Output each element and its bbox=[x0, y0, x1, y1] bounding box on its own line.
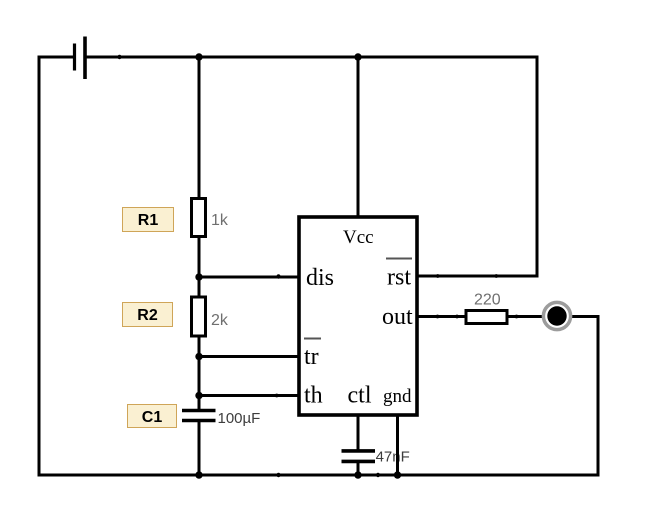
resistor R1 bbox=[192, 199, 206, 237]
svg-text:47nF: 47nF bbox=[376, 449, 410, 466]
wire top-left to battery bbox=[39, 56, 72, 59]
node junction C2 bottom bbox=[354, 471, 361, 478]
node junction top Vcc bbox=[354, 53, 361, 60]
wire C1 to bottom rail bbox=[198, 421, 201, 475]
overline tr bbox=[304, 338, 321, 340]
svg-text:rst: rst bbox=[387, 265, 411, 291]
battery B1 bbox=[75, 37, 86, 80]
wire tr pin bbox=[199, 355, 299, 358]
capacitor C2 47nF plates bbox=[342, 451, 376, 462]
wire right rail bottom bbox=[597, 317, 600, 476]
svg-text:ctl: ctl bbox=[348, 383, 372, 409]
node nub out wire a bbox=[436, 315, 440, 319]
wire right rail down to rst bbox=[536, 57, 539, 276]
wire rst to IC bbox=[417, 275, 537, 278]
wire Vcc pin bbox=[357, 57, 360, 217]
node nub out wire b bbox=[455, 315, 459, 319]
wire left rail bbox=[38, 57, 41, 475]
label box C1 bbox=[127, 404, 177, 428]
node junction tr bbox=[195, 353, 202, 360]
label box R2 bbox=[122, 302, 173, 327]
wire ctl pin to C2 bbox=[357, 415, 360, 449]
node junction gnd bottom bbox=[394, 471, 401, 478]
wire R2 to th junction bbox=[198, 337, 201, 410]
wire branch x=199 top bbox=[198, 57, 201, 198]
IC U1 555 timer bbox=[299, 217, 417, 415]
svg-text:out: out bbox=[382, 304, 413, 330]
node junction dis bbox=[195, 273, 202, 280]
svg-text:220: 220 bbox=[474, 292, 501, 309]
wire C2 to bottom rail bbox=[357, 463, 360, 475]
svg-text:2k: 2k bbox=[211, 312, 229, 329]
node junction th bbox=[195, 392, 202, 399]
svg-text:tr: tr bbox=[304, 344, 319, 370]
resistor R2 bbox=[192, 297, 206, 336]
node junction C1 bottom bbox=[195, 471, 202, 478]
resistor R3 220 bbox=[466, 311, 507, 324]
node nub out wire c bbox=[515, 315, 519, 319]
wire R3 to speaker bbox=[507, 315, 544, 318]
svg-text:100µF: 100µF bbox=[218, 410, 261, 427]
wire dis pin bbox=[199, 276, 299, 279]
node nub th wire bbox=[275, 394, 279, 398]
node nub rst wire b bbox=[494, 274, 498, 278]
overline rst bbox=[386, 258, 412, 260]
svg-text:th: th bbox=[304, 383, 323, 409]
wire gnd pin overlay bbox=[396, 440, 399, 475]
node nub top wire bbox=[117, 55, 121, 59]
node nub bottom wire right bbox=[376, 473, 380, 477]
wire speaker to right corner bbox=[571, 315, 598, 318]
svg-text:gnd: gnd bbox=[383, 386, 412, 407]
capacitor C1 plates bbox=[182, 411, 216, 421]
node junction top x199 bbox=[195, 53, 202, 60]
svg-text:dis: dis bbox=[306, 265, 334, 291]
label box R1 bbox=[122, 207, 174, 232]
wire R1 to dis junction to R2 bbox=[198, 237, 201, 296]
node nub bottom wire left bbox=[276, 473, 280, 477]
wire gnd pin bbox=[396, 415, 399, 475]
wire out pin to R3 bbox=[417, 315, 466, 318]
node nub rst wire a bbox=[436, 274, 440, 278]
wire th pin bbox=[199, 394, 299, 397]
wire bottom rail bbox=[39, 474, 598, 477]
node nub dis wire bbox=[276, 274, 280, 278]
wire battery to top-right corner bbox=[87, 56, 538, 59]
speaker connector bbox=[543, 302, 570, 329]
svg-text:1k: 1k bbox=[211, 212, 229, 229]
svg-text:Vcc: Vcc bbox=[343, 227, 374, 248]
